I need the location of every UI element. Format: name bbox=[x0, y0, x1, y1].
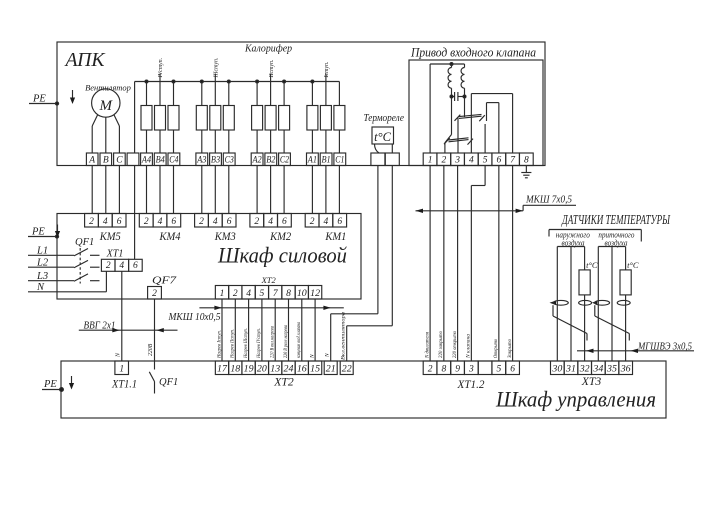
svg-text:4: 4 bbox=[469, 155, 474, 165]
terminal row motor A B C bbox=[86, 153, 125, 166]
svg-text:КМ1: КМ1 bbox=[325, 229, 347, 243]
svg-text:Нагрев IIступ.: Нагрев IIступ. bbox=[230, 329, 236, 359]
svg-text:8: 8 bbox=[441, 364, 446, 374]
wire terminal 6 loop bbox=[487, 103, 499, 153]
enclosure box APK (air handling unit) bbox=[57, 42, 545, 166]
terminal block XT1 (2 4 6) bbox=[101, 259, 142, 271]
terminal row А4В4С4 bbox=[141, 153, 180, 166]
svg-text:Термореле: Термореле bbox=[364, 113, 405, 124]
svg-text:N: N bbox=[36, 282, 45, 293]
svg-text:N клапана: N клапана bbox=[466, 334, 472, 359]
svg-text:18: 18 bbox=[230, 364, 240, 374]
svg-text:Калорифер: Калорифер bbox=[244, 44, 292, 55]
svg-text:8: 8 bbox=[286, 289, 291, 299]
svg-text:3: 3 bbox=[468, 364, 474, 374]
svg-text:В1: В1 bbox=[322, 155, 331, 165]
wires valve terminals 1-3 to XT1.2 bbox=[430, 166, 458, 362]
svg-text:t°С: t°С bbox=[627, 260, 639, 270]
svg-text:А1: А1 bbox=[307, 155, 317, 165]
svg-text:2: 2 bbox=[106, 261, 111, 271]
svg-text:3: 3 bbox=[454, 155, 460, 165]
svg-text:В: В bbox=[103, 155, 109, 165]
thermal relay t°C bbox=[372, 127, 394, 153]
svg-text:32: 32 bbox=[579, 364, 590, 374]
svg-text:Вкл.вентилятора: Вкл.вентилятора bbox=[341, 312, 347, 360]
cable label MKSh 7x0,5 bbox=[416, 194, 577, 213]
svg-text:ХТ2: ХТ2 bbox=[273, 377, 294, 389]
svg-text:IVступ.: IVступ. bbox=[158, 58, 164, 79]
wires heater group 2 to KM2 bbox=[257, 166, 284, 214]
svg-text:220 закрыто: 220 закрыто bbox=[438, 331, 444, 358]
line N bbox=[28, 271, 106, 293]
heater stage IVступ. elements (3x resistor) bbox=[141, 58, 179, 153]
svg-text:1: 1 bbox=[428, 155, 433, 165]
wire label 220V bbox=[148, 343, 154, 356]
wire thermal relay core 2 bbox=[347, 166, 393, 362]
breaker QF1 (inside control cabinet) bbox=[149, 372, 178, 394]
svg-text:24: 24 bbox=[284, 364, 294, 374]
label XT2 (control cabinet side) bbox=[273, 377, 294, 389]
label APK bbox=[64, 49, 106, 71]
svg-text:17: 17 bbox=[217, 364, 228, 374]
label Kalorifer (heater) bbox=[244, 44, 292, 55]
valve-drive inner box bbox=[409, 60, 543, 166]
label KM3 bbox=[214, 229, 236, 243]
svg-text:ДАТЧИКИ ТЕМПЕРАТУРЫ: ДАТЧИКИ ТЕМПЕРАТУРЫ bbox=[561, 212, 671, 227]
svg-text:А: А bbox=[88, 155, 95, 165]
wires heater group 1 to KM1 bbox=[312, 166, 339, 214]
terminal block XT2 row 1 2 4 5 7 8 10 12 bbox=[215, 286, 321, 300]
wire motor phase B bbox=[105, 117, 107, 153]
svg-text:15: 15 bbox=[310, 364, 320, 374]
svg-text:Шкаф силовой: Шкаф силовой bbox=[217, 243, 347, 268]
label QF7 bbox=[152, 275, 177, 287]
svg-text:30: 30 bbox=[551, 364, 562, 374]
svg-text:22: 22 bbox=[342, 364, 352, 374]
PE terminal (bottom, into control cabinet) bbox=[42, 376, 74, 391]
svg-text:2: 2 bbox=[144, 217, 149, 227]
terminal XT2 22 bbox=[340, 361, 353, 375]
wire terminal 5 riser bbox=[484, 124, 486, 153]
wires heater group 3 to KM3 bbox=[202, 166, 229, 214]
svg-text:ХТ1: ХТ1 bbox=[106, 249, 124, 260]
svg-text:концевик вход.клапана: концевик вход.клапана bbox=[295, 322, 302, 358]
terminal block XT3 (30 31 32 34 35 36) bbox=[551, 361, 633, 375]
cable screen symbols sensor RK1 bbox=[550, 300, 592, 340]
label Privod vkhodnogo klapana (inlet valve drive) bbox=[410, 45, 536, 60]
wire labels valve cable cores bbox=[423, 331, 513, 359]
wire thermal relay core 1 bbox=[331, 166, 378, 362]
label KM5 bbox=[99, 229, 121, 243]
temperature sensor RK1 (outdoor air) bbox=[557, 247, 598, 362]
svg-text:QF7: QF7 bbox=[152, 275, 177, 287]
label XT1 bbox=[106, 249, 124, 260]
terminal XT2 21 bbox=[324, 361, 337, 375]
svg-text:N: N bbox=[325, 353, 331, 358]
svg-text:4: 4 bbox=[324, 217, 329, 227]
svg-text:13: 13 bbox=[270, 364, 280, 374]
svg-text:6: 6 bbox=[171, 217, 176, 227]
svg-text:ВВГ 2х1: ВВГ 2х1 bbox=[84, 320, 116, 331]
svg-text:7: 7 bbox=[273, 289, 279, 299]
wire label N (21) bbox=[325, 353, 331, 358]
contactor KM4 terminals 2 4 6 bbox=[139, 214, 180, 228]
svg-text:N: N bbox=[115, 352, 121, 358]
svg-text:С4: С4 bbox=[169, 155, 178, 165]
svg-text:5: 5 bbox=[496, 364, 501, 374]
svg-text:2: 2 bbox=[441, 155, 446, 165]
svg-text:2: 2 bbox=[89, 217, 94, 227]
svg-text:220 открыто: 220 открыто bbox=[452, 331, 458, 358]
label XT3 bbox=[581, 376, 602, 388]
svg-text:Привод входного клапана: Привод входного клапана bbox=[410, 45, 536, 60]
svg-text:PE: PE bbox=[43, 379, 57, 390]
terminal row А2В2С2 bbox=[251, 153, 290, 166]
wire motor phase C bbox=[114, 115, 120, 153]
svg-text:КМ5: КМ5 bbox=[99, 229, 121, 243]
svg-text:Закрыто: Закрыто bbox=[507, 339, 513, 358]
wires heater group 4 to KM4 bbox=[147, 166, 174, 214]
svg-text:6: 6 bbox=[117, 217, 122, 227]
svg-text:5: 5 bbox=[483, 155, 488, 165]
svg-text:9: 9 bbox=[455, 364, 460, 374]
terminal row А3В3С3 bbox=[196, 153, 235, 166]
svg-text:Iступ.: Iступ. bbox=[324, 61, 330, 78]
heater stage Iступ. elements (3x resistor) bbox=[307, 61, 345, 153]
label XT2 (power cabinet side) bbox=[261, 275, 277, 285]
cable screen symbols sensor RK2 bbox=[592, 300, 630, 340]
svg-text:АПК: АПК bbox=[64, 49, 106, 71]
switch S1 (upper changeover contact) bbox=[455, 114, 485, 121]
contactor KM1 terminals 2 4 6 bbox=[305, 214, 346, 228]
svg-text:С2: С2 bbox=[280, 155, 289, 165]
svg-text:6: 6 bbox=[227, 217, 232, 227]
wire valve terminal 5 jog to XT1.2-3 bbox=[471, 166, 485, 362]
svg-text:1: 1 bbox=[119, 364, 124, 374]
PE terminal (middle, into power cabinet) bbox=[28, 225, 60, 239]
svg-text:4: 4 bbox=[119, 261, 124, 271]
svg-text:t°С: t°С bbox=[374, 130, 391, 144]
svg-text:PE: PE bbox=[32, 94, 46, 105]
wire heater neutral to XT1-6 bbox=[134, 166, 136, 260]
label Shkaf upravleniya bbox=[495, 387, 656, 412]
svg-text:7: 7 bbox=[510, 155, 516, 165]
breaker QF1 three-pole switch bbox=[28, 246, 100, 284]
wire bus to neutral terminal bbox=[134, 82, 136, 154]
wires motor A B C to KM5 bbox=[92, 166, 119, 214]
wire valve terminal 1 riser bbox=[429, 64, 431, 153]
svg-text:36: 36 bbox=[620, 364, 631, 374]
wire label at 22 bbox=[341, 312, 347, 360]
svg-text:20: 20 bbox=[257, 364, 267, 374]
svg-text:КМ2: КМ2 bbox=[269, 229, 291, 243]
svg-text:31: 31 bbox=[565, 364, 576, 374]
PE terminal (top, into APK) bbox=[29, 90, 75, 105]
terminal row thermal relay bbox=[371, 153, 399, 166]
terminal block XT2 row 17 18 19 20 13 24 16 15 bbox=[215, 361, 321, 375]
svg-text:Нагрев IVступ.: Нагрев IVступ. bbox=[256, 328, 262, 359]
svg-text:Вентилятор: Вентилятор bbox=[85, 83, 131, 93]
svg-text:В3: В3 bbox=[211, 155, 220, 165]
svg-text:1: 1 bbox=[220, 289, 225, 299]
svg-text:2: 2 bbox=[254, 217, 259, 227]
heater stage IIIступ. elements (3x resistor) bbox=[196, 57, 234, 153]
svg-text:М: М bbox=[99, 98, 114, 114]
svg-text:Шкаф управления: Шкаф управления bbox=[495, 387, 656, 412]
label KM1 bbox=[325, 229, 347, 243]
svg-text:В4: В4 bbox=[156, 155, 165, 165]
svg-text:2: 2 bbox=[152, 289, 157, 299]
svg-text:С3: С3 bbox=[225, 155, 234, 165]
wire QF7 down to QF1 bbox=[154, 299, 156, 370]
svg-text:МКШ 10х0,5: МКШ 10х0,5 bbox=[168, 312, 221, 323]
svg-text:2: 2 bbox=[233, 289, 238, 299]
svg-text:N двигателя: N двигателя bbox=[423, 332, 430, 359]
svg-text:t°С: t°С bbox=[586, 260, 598, 270]
sensor group bracket bbox=[549, 230, 641, 242]
svg-text:ХТ1.1: ХТ1.1 bbox=[111, 379, 137, 391]
inductor L1 (valve motor winding) bbox=[448, 64, 451, 135]
svg-text:220 В реле нагрева: 220 В реле нагрева bbox=[283, 325, 289, 358]
svg-text:5: 5 bbox=[260, 289, 265, 299]
svg-text:Нагрев Iступ.: Нагрев Iступ. bbox=[216, 330, 222, 359]
svg-text:16: 16 bbox=[297, 364, 307, 374]
svg-text:2: 2 bbox=[199, 217, 204, 227]
label KM2 bbox=[269, 229, 291, 243]
svg-text:КМ4: КМ4 bbox=[159, 229, 181, 243]
switch S2 (lower changeover contact) bbox=[444, 138, 473, 145]
capacitor C1 (phase shift) bbox=[450, 92, 466, 101]
svg-text:2: 2 bbox=[428, 364, 433, 374]
motor M (fan motor) bbox=[92, 89, 120, 117]
svg-text:12: 12 bbox=[310, 289, 320, 299]
label KM4 bbox=[159, 229, 181, 243]
svg-text:35: 35 bbox=[606, 364, 617, 374]
svg-text:4: 4 bbox=[158, 217, 163, 227]
svg-text:220 В вкл.нагрева: 220 В вкл.нагрева bbox=[270, 326, 276, 358]
svg-text:А3: А3 bbox=[196, 155, 206, 165]
terminal XT1.1 (1) bbox=[115, 361, 129, 375]
wires valve terminals 6 7 to XT1.2 bbox=[499, 166, 513, 362]
svg-text:КМ3: КМ3 bbox=[214, 229, 236, 243]
svg-text:2: 2 bbox=[310, 217, 315, 227]
svg-text:N: N bbox=[309, 354, 315, 359]
svg-text:С: С bbox=[116, 155, 123, 165]
svg-text:21: 21 bbox=[326, 364, 336, 374]
svg-text:Открыто: Открыто bbox=[493, 339, 499, 358]
svg-text:19: 19 bbox=[244, 364, 254, 374]
heater star-point bus bbox=[135, 81, 340, 83]
svg-text:8: 8 bbox=[524, 155, 529, 165]
wires XT2 to control cabinet bbox=[222, 299, 315, 361]
label Ventilyator (fan) bbox=[85, 83, 131, 93]
label Shkaf silovoy bbox=[217, 243, 347, 268]
svg-text:А4: А4 bbox=[141, 155, 151, 165]
svg-text:4: 4 bbox=[246, 289, 251, 299]
svg-text:ХТ1.2: ХТ1.2 bbox=[457, 379, 485, 391]
inductor L2 (valve motor winding) bbox=[461, 64, 464, 117]
label QF1 (main breaker) bbox=[75, 237, 94, 248]
svg-text:МГШВЭ 3х0,5: МГШВЭ 3х0,5 bbox=[637, 342, 692, 353]
cable label VVG 2x1 bbox=[79, 320, 178, 332]
svg-text:6: 6 bbox=[496, 155, 501, 165]
svg-text:ХТ3: ХТ3 bbox=[581, 376, 602, 388]
contactor KM2 terminals 2 4 6 bbox=[250, 214, 291, 228]
terminal QF7 (2) bbox=[148, 287, 162, 300]
wire valve top bar bbox=[430, 63, 464, 66]
label naruzhnogo vozdukha bbox=[556, 230, 590, 248]
heater stage IIступ. elements (3x resistor) bbox=[252, 59, 290, 153]
svg-text:220В: 220В bbox=[148, 343, 154, 356]
svg-text:6: 6 bbox=[510, 364, 515, 374]
label Termorele bbox=[364, 113, 405, 124]
svg-text:С1: С1 bbox=[335, 155, 344, 165]
wire switch S1 to terminal 3 bbox=[457, 118, 459, 154]
svg-text:ХТ2: ХТ2 bbox=[261, 275, 277, 285]
svg-text:Нагрев IIIступ.: Нагрев IIIступ. bbox=[243, 328, 249, 359]
label pritochnogo vozdukha bbox=[598, 230, 634, 248]
svg-text:QF1: QF1 bbox=[159, 377, 178, 388]
svg-text:10: 10 bbox=[297, 289, 307, 299]
svg-text:МКШ 7х0,5: МКШ 7х0,5 bbox=[525, 194, 572, 205]
label DATCHIKI TEMPERATURY bbox=[561, 212, 671, 227]
svg-text:6: 6 bbox=[282, 217, 287, 227]
cabinet box Shkaf upravleniya (control cabinet) bbox=[61, 361, 666, 418]
svg-text:IIIступ.: IIIступ. bbox=[214, 57, 220, 78]
svg-text:6: 6 bbox=[337, 217, 342, 227]
svg-text:4: 4 bbox=[213, 217, 218, 227]
terminal neutral (unlabelled) bbox=[127, 153, 139, 166]
contactor KM3 terminals 2 4 6 bbox=[195, 214, 236, 228]
contactor KM5 terminals 2 4 6 bbox=[85, 214, 126, 228]
wire terminal 4 to terminal 7 (outer loop) bbox=[471, 94, 512, 153]
terminal row А1В1С1 bbox=[307, 153, 346, 166]
terminal block XT1.2 (2 8 9 3 _ 5 6) bbox=[423, 361, 519, 375]
svg-text:34: 34 bbox=[592, 364, 603, 374]
temperature sensor RK2 (supply air) bbox=[598, 247, 639, 362]
wire labels XT2 cable cores bbox=[216, 322, 315, 359]
wire coil L1 blade to terminal 2 bbox=[445, 135, 452, 154]
svg-text:В2: В2 bbox=[266, 155, 275, 165]
svg-text:4: 4 bbox=[268, 217, 273, 227]
svg-text:IIступ.: IIступ. bbox=[269, 59, 275, 78]
svg-text:QF1: QF1 bbox=[75, 237, 94, 248]
wire XT1-4 to XT1.1 bbox=[121, 271, 123, 361]
ground symbol at valve terminal 8 bbox=[521, 166, 531, 178]
svg-text:6: 6 bbox=[133, 261, 138, 271]
wire label N at XT1.1 bbox=[115, 352, 121, 358]
svg-text:А2: А2 bbox=[252, 155, 262, 165]
terminal row valve drive 1-8 bbox=[423, 153, 533, 166]
svg-text:4: 4 bbox=[103, 217, 108, 227]
cable label MKSh 10x0,5 bbox=[168, 306, 344, 323]
svg-text:PE: PE bbox=[31, 227, 45, 238]
label XT1.2 bbox=[457, 379, 485, 391]
label XT1.1 bbox=[111, 379, 137, 391]
wire motor phase A bbox=[92, 115, 98, 153]
cabinet box Shkaf silovoy (power cabinet) bbox=[57, 214, 361, 300]
cable label MGShVE 3x0,5 bbox=[577, 342, 694, 354]
